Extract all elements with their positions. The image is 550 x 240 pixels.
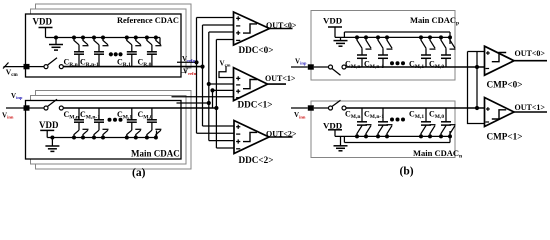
svg-text:Reference CDAC: Reference CDAC: [117, 16, 179, 25]
svg-text:OUT<1>: OUT<1>: [515, 103, 546, 112]
Reference CDAC shadow box 3: [36, 4, 192, 68]
svg-text:VDD: VDD: [323, 16, 342, 26]
Main CDAC main box: [26, 101, 182, 160]
svg-text:DDC<2>: DDC<2>: [239, 155, 274, 165]
svg-text:VDD: VDD: [33, 17, 53, 27]
CDACn output rail: [346, 107, 485, 109]
switch pair and capacitor cell at x=362: [355, 108, 372, 138]
op-amp CMP1: [485, 98, 548, 127]
ground (CDACp): [334, 37, 348, 46]
switch rails (CDACp): [335, 32, 450, 44]
svg-text:OUT<1>: OUT<1>: [265, 74, 296, 83]
switch pair and capacitor cell at x=446: [439, 35, 456, 67]
switch pair and capacitor cell at x=446: [439, 108, 456, 138]
bottom switch rail (Main CDAC): [47, 131, 156, 138]
cross wiring to comparators: [468, 52, 485, 124]
switch pair and capacitor cell at x=362: [355, 35, 372, 67]
DDC1 in3 wire: [210, 88, 233, 92]
switch pair and capacitor cell at x=383: [376, 108, 393, 138]
Main CDACp box: [311, 11, 455, 81]
Vcm input wire and sampling switch: [3, 58, 63, 70]
svg-text:(b): (b): [400, 166, 414, 178]
switch rails (CDACn): [335, 131, 450, 143]
DDC1 in2 wire: [207, 82, 234, 86]
Main CDAC output rail: [63, 107, 216, 109]
svg-text:Main CDACp: Main CDACp: [410, 15, 459, 27]
CDACp output rail: [346, 66, 485, 68]
switch pair and capacitor cell at x=131.8: [125, 108, 142, 140]
top switch rail: [46, 38, 161, 45]
Main CDAC shadow box 3: [36, 91, 192, 170]
Vinn input (b): [291, 100, 346, 111]
back slice output line to DDC1 in4: [172, 96, 234, 98]
middle slice output line: [177, 102, 209, 104]
Vrefp line from middle slice: [177, 61, 197, 63]
op-amp DDC2: [234, 121, 293, 154]
switch pair and capacitor cell at x=79: [72, 108, 89, 140]
DDC0 input wires: [197, 18, 234, 40]
svg-text:VDD: VDD: [39, 120, 59, 130]
switch pair and capacitor cell at x=383: [376, 35, 393, 67]
bus wire v3: [208, 32, 210, 141]
bus wire v5: [212, 90, 214, 108]
bus wire v4: [215, 40, 217, 149]
VDD symbol: [40, 130, 54, 137]
Reference CDAC shadow box 2: [31, 9, 187, 73]
VDD symbol: [328, 27, 342, 37]
svg-text:CMP<0>: CMP<0>: [487, 80, 523, 90]
Vcm bracket wire into DDC1 in1: [219, 66, 234, 78]
svg-text:Main CDACn: Main CDACn: [413, 148, 462, 160]
op-amp DDC1: [234, 68, 287, 101]
dots ...: [390, 61, 405, 65]
svg-text:DDC<1>: DDC<1>: [238, 100, 273, 110]
switch pair and capacitor cell at x=426: [419, 108, 436, 138]
switch pair and capacitor cell at x=151.9: [145, 108, 162, 140]
DDC2 input wires: [197, 126, 235, 148]
svg-text:Main CDAC: Main CDAC: [131, 149, 180, 159]
VDD symbol: [328, 130, 342, 137]
op-amp CMP0: [485, 46, 548, 75]
ground (Main CDAC): [50, 136, 54, 140]
svg-text:OUT<2>: OUT<2>: [266, 130, 297, 139]
ground (Reference CDAC): [54, 36, 58, 40]
svg-text:OUT<0>: OUT<0>: [515, 49, 546, 58]
switch pair and capacitor cell at x=131.8: [125, 36, 142, 67]
switch pair and capacitor cell at x=151.9: [145, 36, 162, 67]
bus wire v1: [196, 18, 198, 134]
switch pair and capacitor cell at x=426: [419, 35, 436, 67]
Main CDAC shadow box 2: [31, 96, 187, 165]
svg-text:OUT<0>: OUT<0>: [266, 21, 297, 30]
Reference CDAC main box: [26, 14, 182, 77]
bus wire v2: [202, 25, 204, 126]
Vinp/Vinn input wire and sampling switch: [6, 99, 63, 111]
switch pair and capacitor cell at x=99: [92, 36, 109, 67]
Reference CDAC output rail (Vrefn net): [63, 66, 202, 68]
Vinp input (b): [291, 64, 346, 75]
svg-text:DDC<0>: DDC<0>: [239, 45, 274, 55]
op-amp DDC0: [234, 12, 293, 45]
dots ...: [109, 52, 123, 56]
svg-text:CMP<1>: CMP<1>: [487, 132, 523, 142]
dots ...: [108, 118, 123, 122]
dots ...: [390, 118, 405, 122]
Main CDACn box: [311, 101, 455, 158]
svg-text:(a): (a): [132, 167, 146, 179]
switch pair and capacitor cell at x=99: [92, 108, 109, 140]
VDD symbol: [39, 28, 53, 38]
switch pair and capacitor cell at x=79: [72, 36, 89, 67]
ground (CDACn): [334, 136, 348, 150]
